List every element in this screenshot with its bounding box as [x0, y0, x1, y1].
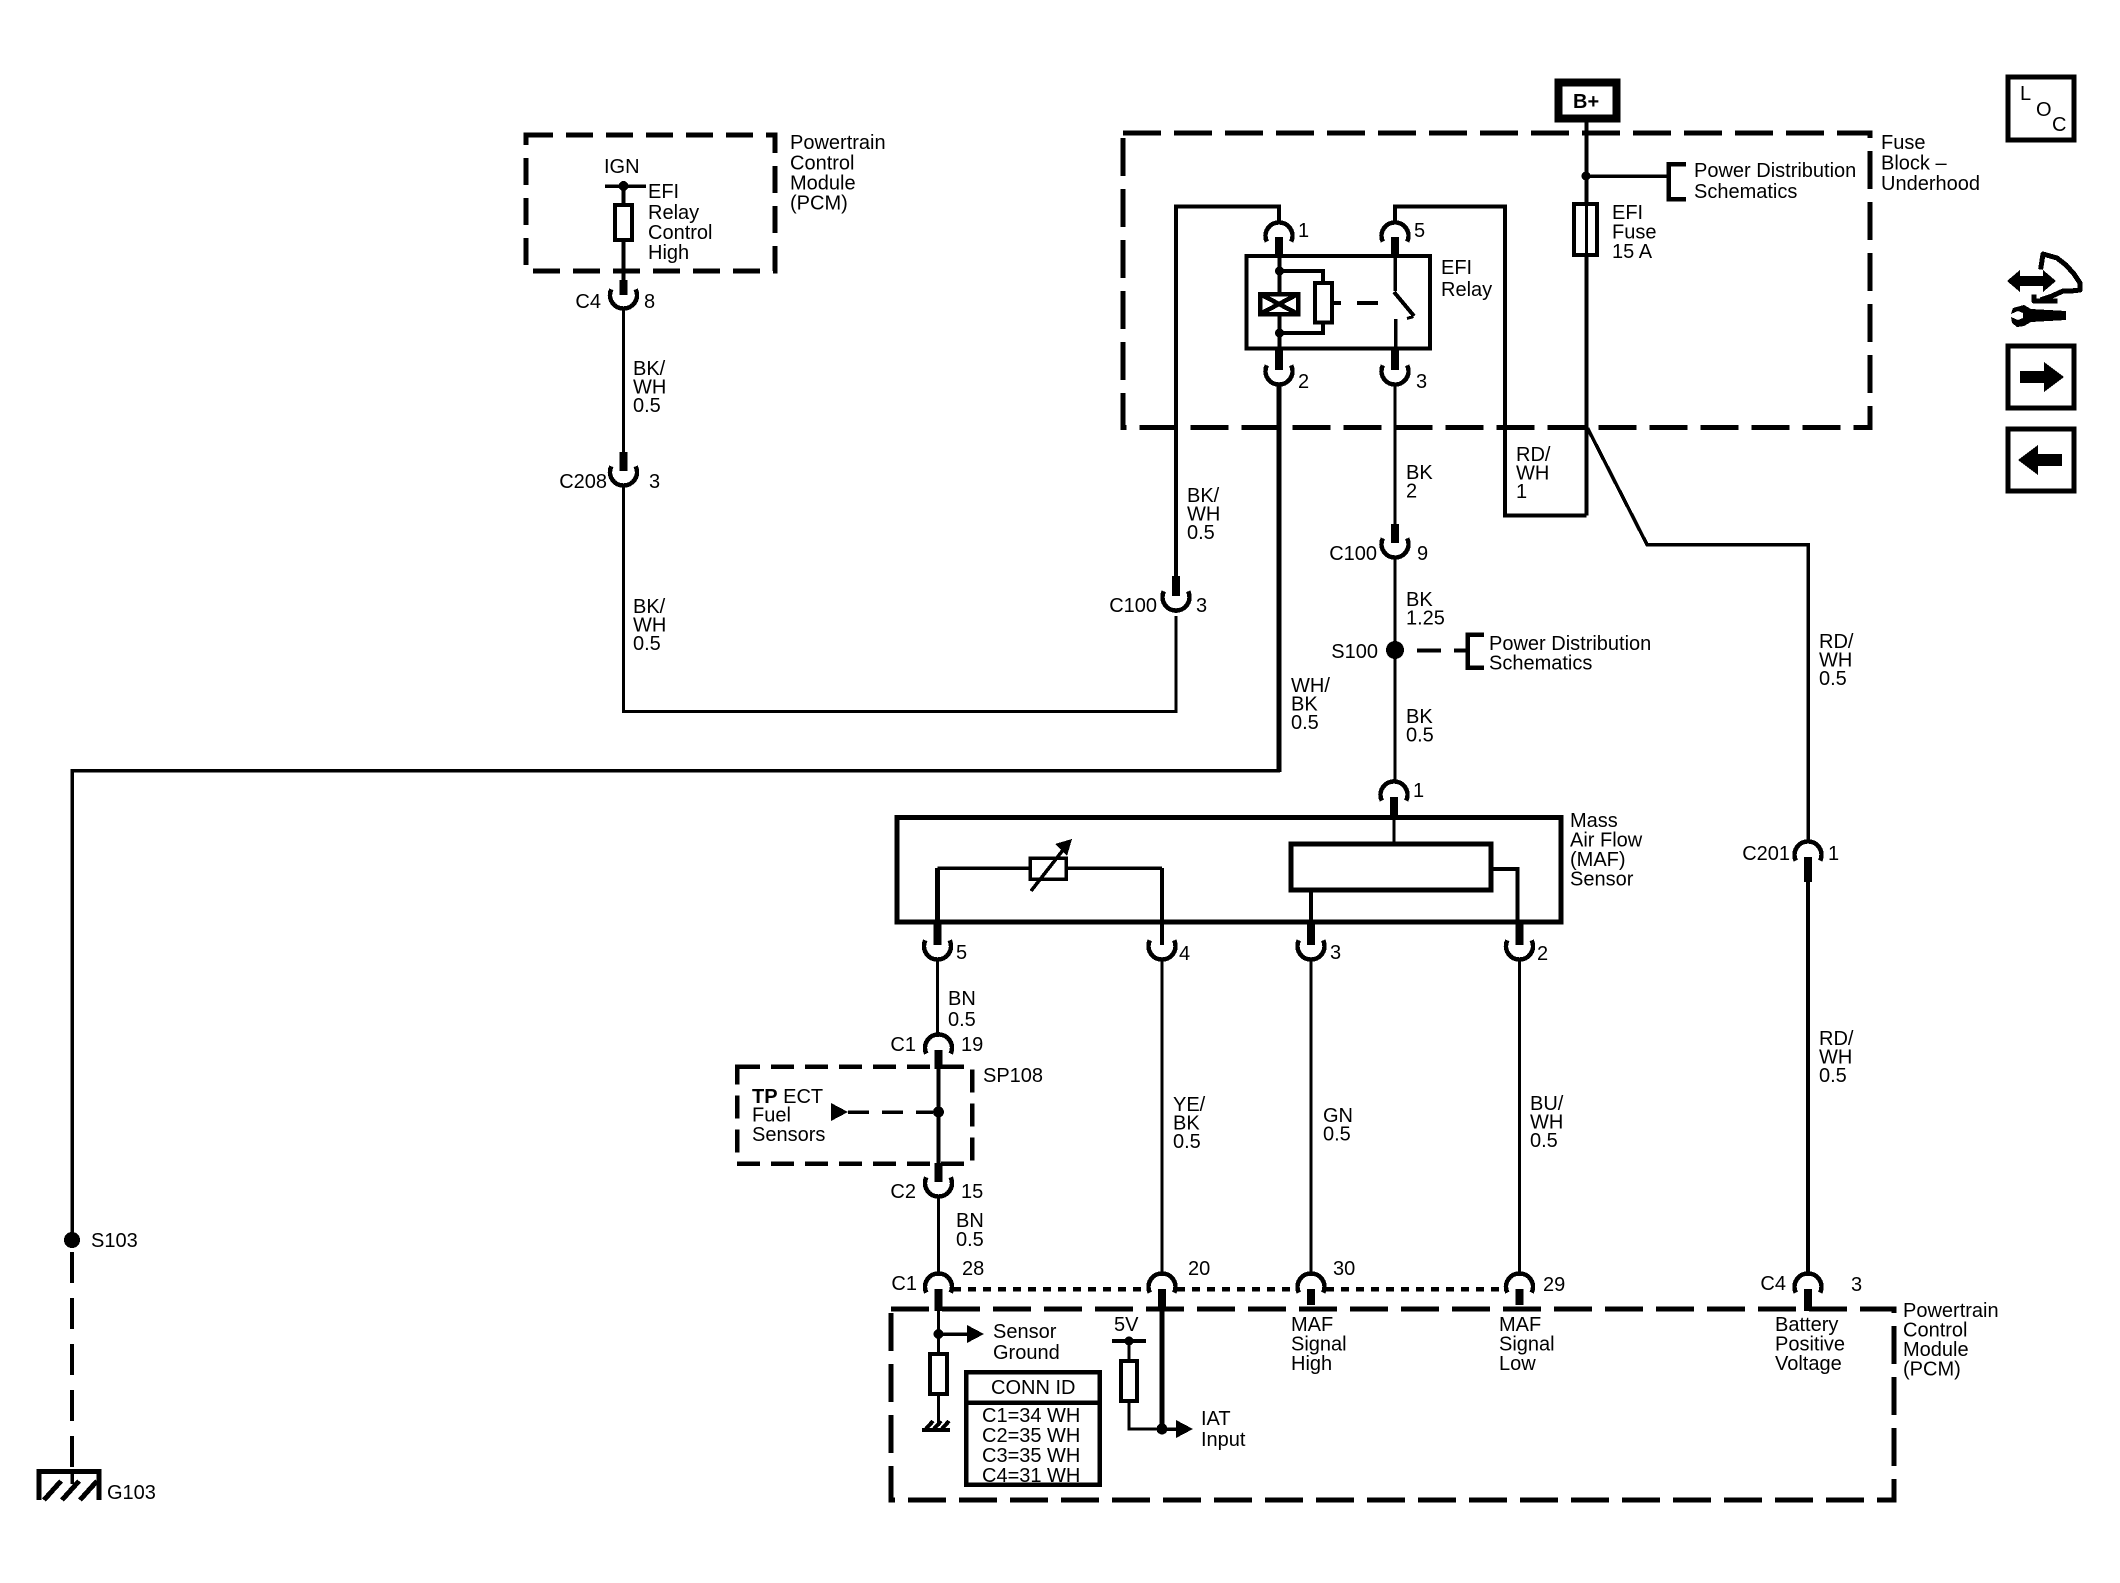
svg-text:0.5: 0.5	[1323, 1124, 1351, 1146]
diagnostic icon (harness + wrench)	[2007, 270, 2056, 292]
svg-text:Sensor: Sensor	[993, 1321, 1057, 1343]
svg-text:Control: Control	[648, 222, 712, 244]
svg-text:O: O	[2036, 99, 2052, 121]
svg-text:20: 20	[1188, 1258, 1210, 1280]
relay pin 2	[1266, 349, 1310, 394]
MAF pin 2	[1506, 923, 1548, 965]
wire BK/WH 0.5 (C100-3 to relay pin 1)	[1174, 208, 1178, 576]
node IGN stub	[605, 184, 646, 188]
wire top loop to relay pin 1	[1174, 207, 1279, 225]
connector C1 pin 28	[891, 1258, 984, 1311]
svg-text:G103: G103	[107, 1482, 156, 1504]
svg-text:5V: 5V	[1114, 1314, 1139, 1336]
wire horizontal ground run	[72, 771, 1280, 1242]
svg-text:C208: C208	[559, 471, 607, 493]
node S-branch dot	[1582, 172, 1591, 181]
PCM label	[790, 132, 886, 215]
TP ECT Fuel Sensors label	[752, 1086, 825, 1146]
wire BN 0.5 pin5 down	[936, 959, 939, 1037]
svg-text:Sensor: Sensor	[1570, 869, 1634, 891]
wire BK 2 relay pin3 down	[1394, 384, 1397, 525]
svg-text:2: 2	[1537, 943, 1548, 965]
connector C208 pin 3	[559, 452, 660, 493]
wire	[622, 186, 626, 205]
svg-text:Voltage: Voltage	[1775, 1353, 1842, 1375]
connector C4 pin 8	[575, 280, 655, 313]
svg-text:C: C	[2052, 114, 2066, 136]
svg-text:C4: C4	[575, 291, 601, 313]
svg-text:1: 1	[1516, 481, 1527, 503]
svg-text:BN: BN	[948, 988, 976, 1010]
svg-text:0.5: 0.5	[633, 395, 661, 417]
reference bracket S100	[1468, 635, 1485, 668]
resistor 5V pull-up	[1121, 1361, 1137, 1401]
svg-text:0.5: 0.5	[1187, 522, 1215, 544]
svg-text:2: 2	[1406, 481, 1417, 503]
connector C4 pin 3 (PCM)	[1760, 1273, 1862, 1311]
svg-text:Relay: Relay	[1441, 279, 1492, 301]
relay parallel resistor loop	[1280, 271, 1324, 283]
svg-text:30: 30	[1333, 1258, 1355, 1280]
svg-text:0.5: 0.5	[1530, 1130, 1558, 1152]
svg-text:9: 9	[1417, 543, 1428, 565]
reference bracket	[1669, 164, 1687, 199]
svg-text:Ground: Ground	[993, 1342, 1060, 1364]
wire WH/BK 0.5 relay pin2 to ground run	[1277, 384, 1282, 772]
connector C1 pin 19	[890, 1034, 983, 1069]
svg-text:C1=34 WH: C1=34 WH	[982, 1405, 1080, 1427]
svg-text:2: 2	[1298, 371, 1309, 393]
EFI relay box	[1247, 256, 1431, 349]
relay pin 1	[1266, 220, 1310, 256]
dashed wire to G103	[70, 1252, 74, 1468]
svg-text:29: 29	[1543, 1274, 1565, 1296]
wire BK/WH 0.5	[622, 486, 625, 713]
dashed actuate link	[1357, 301, 1378, 305]
wire to IAT node	[1129, 1401, 1162, 1429]
svg-text:IAT: IAT	[1201, 1408, 1231, 1430]
svg-text:C100: C100	[1329, 543, 1377, 565]
svg-text:Block –: Block –	[1881, 153, 1947, 175]
svg-text:Schematics: Schematics	[1694, 181, 1797, 203]
svg-text:Sensors: Sensors	[752, 1124, 825, 1146]
chassis ground (internal)	[922, 1421, 950, 1430]
svg-text:Schematics: Schematics	[1489, 653, 1592, 675]
svg-text:Underhood: Underhood	[1881, 173, 1980, 195]
svg-text:EFI: EFI	[1441, 257, 1472, 279]
relay pin 3	[1382, 349, 1428, 394]
svg-text:B+: B+	[1573, 91, 1599, 113]
svg-text:1: 1	[1413, 780, 1424, 802]
back arrow icon box	[2008, 429, 2074, 491]
svg-text:19: 19	[961, 1034, 983, 1056]
svg-text:1: 1	[1828, 843, 1839, 865]
variable resistor arrow	[1031, 850, 1063, 891]
svg-text:5: 5	[1414, 220, 1425, 242]
IAT wire from pin 20	[1160, 1311, 1165, 1429]
relay coil (box with X)	[1260, 294, 1298, 314]
MAF heated element	[1291, 844, 1491, 890]
element taps	[1309, 890, 1313, 922]
svg-text:C1: C1	[891, 1273, 917, 1295]
svg-text:C1: C1	[890, 1034, 916, 1056]
SP108 dashed box	[737, 1067, 972, 1164]
MAF pin 4	[1149, 923, 1191, 965]
wire GN 0.5 pin3 down	[1310, 959, 1313, 1276]
connector C1 pin 20	[1149, 1258, 1211, 1311]
svg-text:0.5: 0.5	[1819, 1065, 1847, 1087]
svg-text:C4: C4	[1760, 1273, 1786, 1295]
MAF Signal Low label	[1499, 1314, 1555, 1375]
sensors arrow	[831, 1103, 848, 1121]
svg-text:0.5: 0.5	[948, 1009, 976, 1031]
svg-text:4: 4	[1179, 943, 1190, 965]
RD/WH 1 label	[1516, 444, 1551, 503]
svg-text:S100: S100	[1331, 641, 1378, 663]
PCM (top-left) dashed box	[526, 135, 775, 271]
svg-text:3: 3	[1330, 942, 1341, 964]
svg-text:1: 1	[1298, 220, 1309, 242]
svg-text:Control: Control	[790, 153, 854, 175]
splice S103	[64, 1232, 80, 1248]
MAF pin 3	[1298, 923, 1342, 964]
relay U-feed wires (pin 5 loop)	[1395, 207, 1587, 516]
resistor sensor ground	[930, 1354, 947, 1394]
svg-text:C2: C2	[890, 1181, 916, 1203]
RD/WH 0.5 label	[1819, 631, 1854, 690]
svg-text:0.5: 0.5	[1291, 712, 1319, 734]
splice node SP108	[933, 1107, 944, 1118]
CONN ID table	[966, 1372, 1102, 1487]
relay coil wire	[1278, 256, 1282, 294]
MAF connector pin 1	[1381, 780, 1425, 819]
relay pin 5	[1382, 220, 1426, 256]
wire BN 0.5	[937, 1196, 940, 1276]
connector C1 pin 30	[1298, 1258, 1356, 1305]
sensor ground arrow	[939, 1332, 969, 1336]
svg-text:0.5: 0.5	[1173, 1131, 1201, 1153]
IAT arrow	[1162, 1427, 1177, 1431]
node sensor ground	[934, 1329, 944, 1339]
splice S100	[1386, 641, 1404, 659]
B+ battery feed box	[1559, 83, 1617, 119]
svg-text:0.5: 0.5	[1819, 668, 1847, 690]
relay switch	[1394, 256, 1414, 349]
svg-text:High: High	[648, 242, 689, 264]
dashed reference line S100	[1417, 649, 1466, 653]
connector C100 pin 9	[1329, 524, 1428, 565]
resistor EFI Relay Control High	[615, 205, 632, 240]
Fuse Block Underhood dashed box	[1123, 133, 1870, 428]
svg-text:0.5: 0.5	[633, 633, 661, 655]
svg-text:L: L	[2020, 83, 2031, 105]
Battery Positive Voltage label	[1775, 1314, 1845, 1375]
node coil top	[1275, 267, 1284, 276]
svg-text:Fuse: Fuse	[1881, 132, 1925, 154]
svg-text:3: 3	[1196, 595, 1207, 617]
svg-text:C3=35 WH: C3=35 WH	[982, 1445, 1080, 1467]
wire	[622, 240, 626, 281]
MAF Signal High label	[1291, 1314, 1347, 1375]
PCM (bottom) dashed box	[891, 1309, 1894, 1500]
EFI Relay Control High label	[648, 181, 712, 264]
svg-text:Module: Module	[790, 173, 856, 195]
svg-text:EFI: EFI	[648, 181, 679, 203]
svg-text:C201: C201	[1742, 843, 1790, 865]
MAF pin 5	[924, 923, 967, 964]
svg-text:3: 3	[1851, 1274, 1862, 1296]
svg-text:1.25: 1.25	[1406, 608, 1445, 630]
svg-text:IGN: IGN	[604, 156, 640, 178]
ground G103	[37, 1469, 102, 1500]
relay parallel resistor	[1315, 283, 1332, 323]
sensor ground wire	[937, 1311, 940, 1354]
wire	[937, 1394, 940, 1426]
node coil bottom	[1275, 329, 1284, 338]
node IAT	[1157, 1424, 1168, 1435]
MAF sensor box	[897, 818, 1561, 923]
MAF variable resistor branch	[935, 868, 940, 922]
variable resistor	[1030, 858, 1066, 879]
node dot IGN	[619, 181, 629, 191]
resistor actuate stub	[1332, 301, 1341, 305]
wire from B+	[1585, 120, 1589, 516]
connector C2 pin 15	[890, 1163, 983, 1203]
wire branch to reference bracket	[1586, 174, 1667, 178]
svg-text:High: High	[1291, 1353, 1332, 1375]
fused feed diagonal to C201	[1588, 428, 1809, 840]
svg-text:Powertrain: Powertrain	[790, 132, 886, 154]
svg-text:CONN ID: CONN ID	[991, 1377, 1075, 1399]
svg-text:8: 8	[644, 291, 655, 313]
wire YE/BK 0.5 pin4 down	[1161, 959, 1164, 1276]
svg-text:C4=31 WH: C4=31 WH	[982, 1465, 1080, 1487]
svg-text:S103: S103	[91, 1230, 138, 1252]
fuse EFI 15A	[1574, 204, 1597, 255]
svg-text:3: 3	[649, 471, 660, 493]
wire through SP108	[937, 1069, 941, 1181]
svg-text:5: 5	[956, 942, 967, 964]
connector C100 pin 3	[1109, 576, 1207, 617]
svg-text:3: 3	[1416, 371, 1427, 393]
wire RD/WH 0.5 to PCM	[1806, 882, 1810, 1276]
svg-text:C100: C100	[1109, 595, 1157, 617]
svg-text:15 A: 15 A	[1612, 241, 1653, 263]
wire BK/WH 0.5	[622, 309, 625, 452]
svg-text:SP108: SP108	[983, 1065, 1043, 1087]
MAF heated element wire	[1393, 820, 1396, 844]
dashed link to splice SP108	[848, 1110, 933, 1114]
PCM connector C1 dotted line	[953, 1287, 1505, 1292]
connector C1 pin 29	[1506, 1273, 1565, 1305]
wire to C100-3	[624, 616, 1177, 712]
svg-text:C2=35 WH: C2=35 WH	[982, 1425, 1080, 1447]
svg-text:Low: Low	[1499, 1353, 1536, 1375]
relay coil wire low	[1278, 314, 1282, 349]
wire BK 0.5	[1394, 656, 1397, 783]
svg-text:(PCM): (PCM)	[790, 193, 848, 215]
svg-text:Power Distribution: Power Distribution	[1694, 160, 1856, 182]
connector C201 pin 1	[1742, 841, 1839, 882]
svg-text:(PCM): (PCM)	[1903, 1359, 1961, 1381]
wire BK 1.25	[1394, 557, 1397, 651]
svg-text:28: 28	[962, 1258, 984, 1280]
svg-text:0.5: 0.5	[956, 1229, 984, 1251]
svg-text:15: 15	[961, 1181, 983, 1203]
forward arrow icon box	[2008, 346, 2074, 408]
wire BU/WH 0.5 pin2 down	[1518, 959, 1521, 1276]
svg-text:Input: Input	[1201, 1429, 1246, 1451]
LOC icon box	[2008, 77, 2074, 140]
svg-text:Relay: Relay	[648, 202, 699, 224]
svg-text:0.5: 0.5	[1406, 725, 1434, 747]
